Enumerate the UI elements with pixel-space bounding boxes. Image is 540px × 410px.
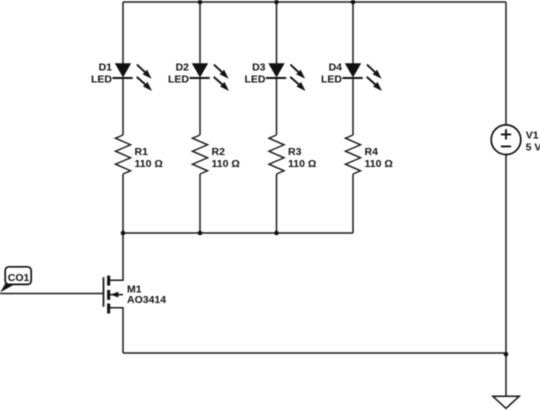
svg-text:CO1: CO1: [8, 272, 30, 284]
svg-text:LED: LED: [321, 73, 342, 85]
svg-text:5 V: 5 V: [526, 141, 540, 153]
svg-text:110 Ω: 110 Ω: [212, 158, 240, 170]
svg-text:110 Ω: 110 Ω: [365, 158, 393, 170]
svg-text:D4: D4: [329, 62, 343, 74]
svg-text:D3: D3: [252, 62, 266, 74]
svg-text:V1: V1: [526, 130, 539, 142]
svg-text:R4: R4: [365, 146, 379, 158]
svg-text:110 Ω: 110 Ω: [135, 158, 163, 170]
svg-text:D1: D1: [99, 62, 113, 74]
svg-text:AO3414: AO3414: [127, 294, 166, 306]
svg-text:D2: D2: [176, 62, 190, 74]
svg-text:R1: R1: [135, 146, 149, 158]
svg-text:110 Ω: 110 Ω: [288, 158, 316, 170]
svg-text:R3: R3: [288, 146, 302, 158]
svg-text:LED: LED: [91, 73, 112, 85]
svg-text:LED: LED: [245, 73, 266, 85]
svg-text:R2: R2: [212, 146, 226, 158]
svg-text:LED: LED: [168, 73, 189, 85]
